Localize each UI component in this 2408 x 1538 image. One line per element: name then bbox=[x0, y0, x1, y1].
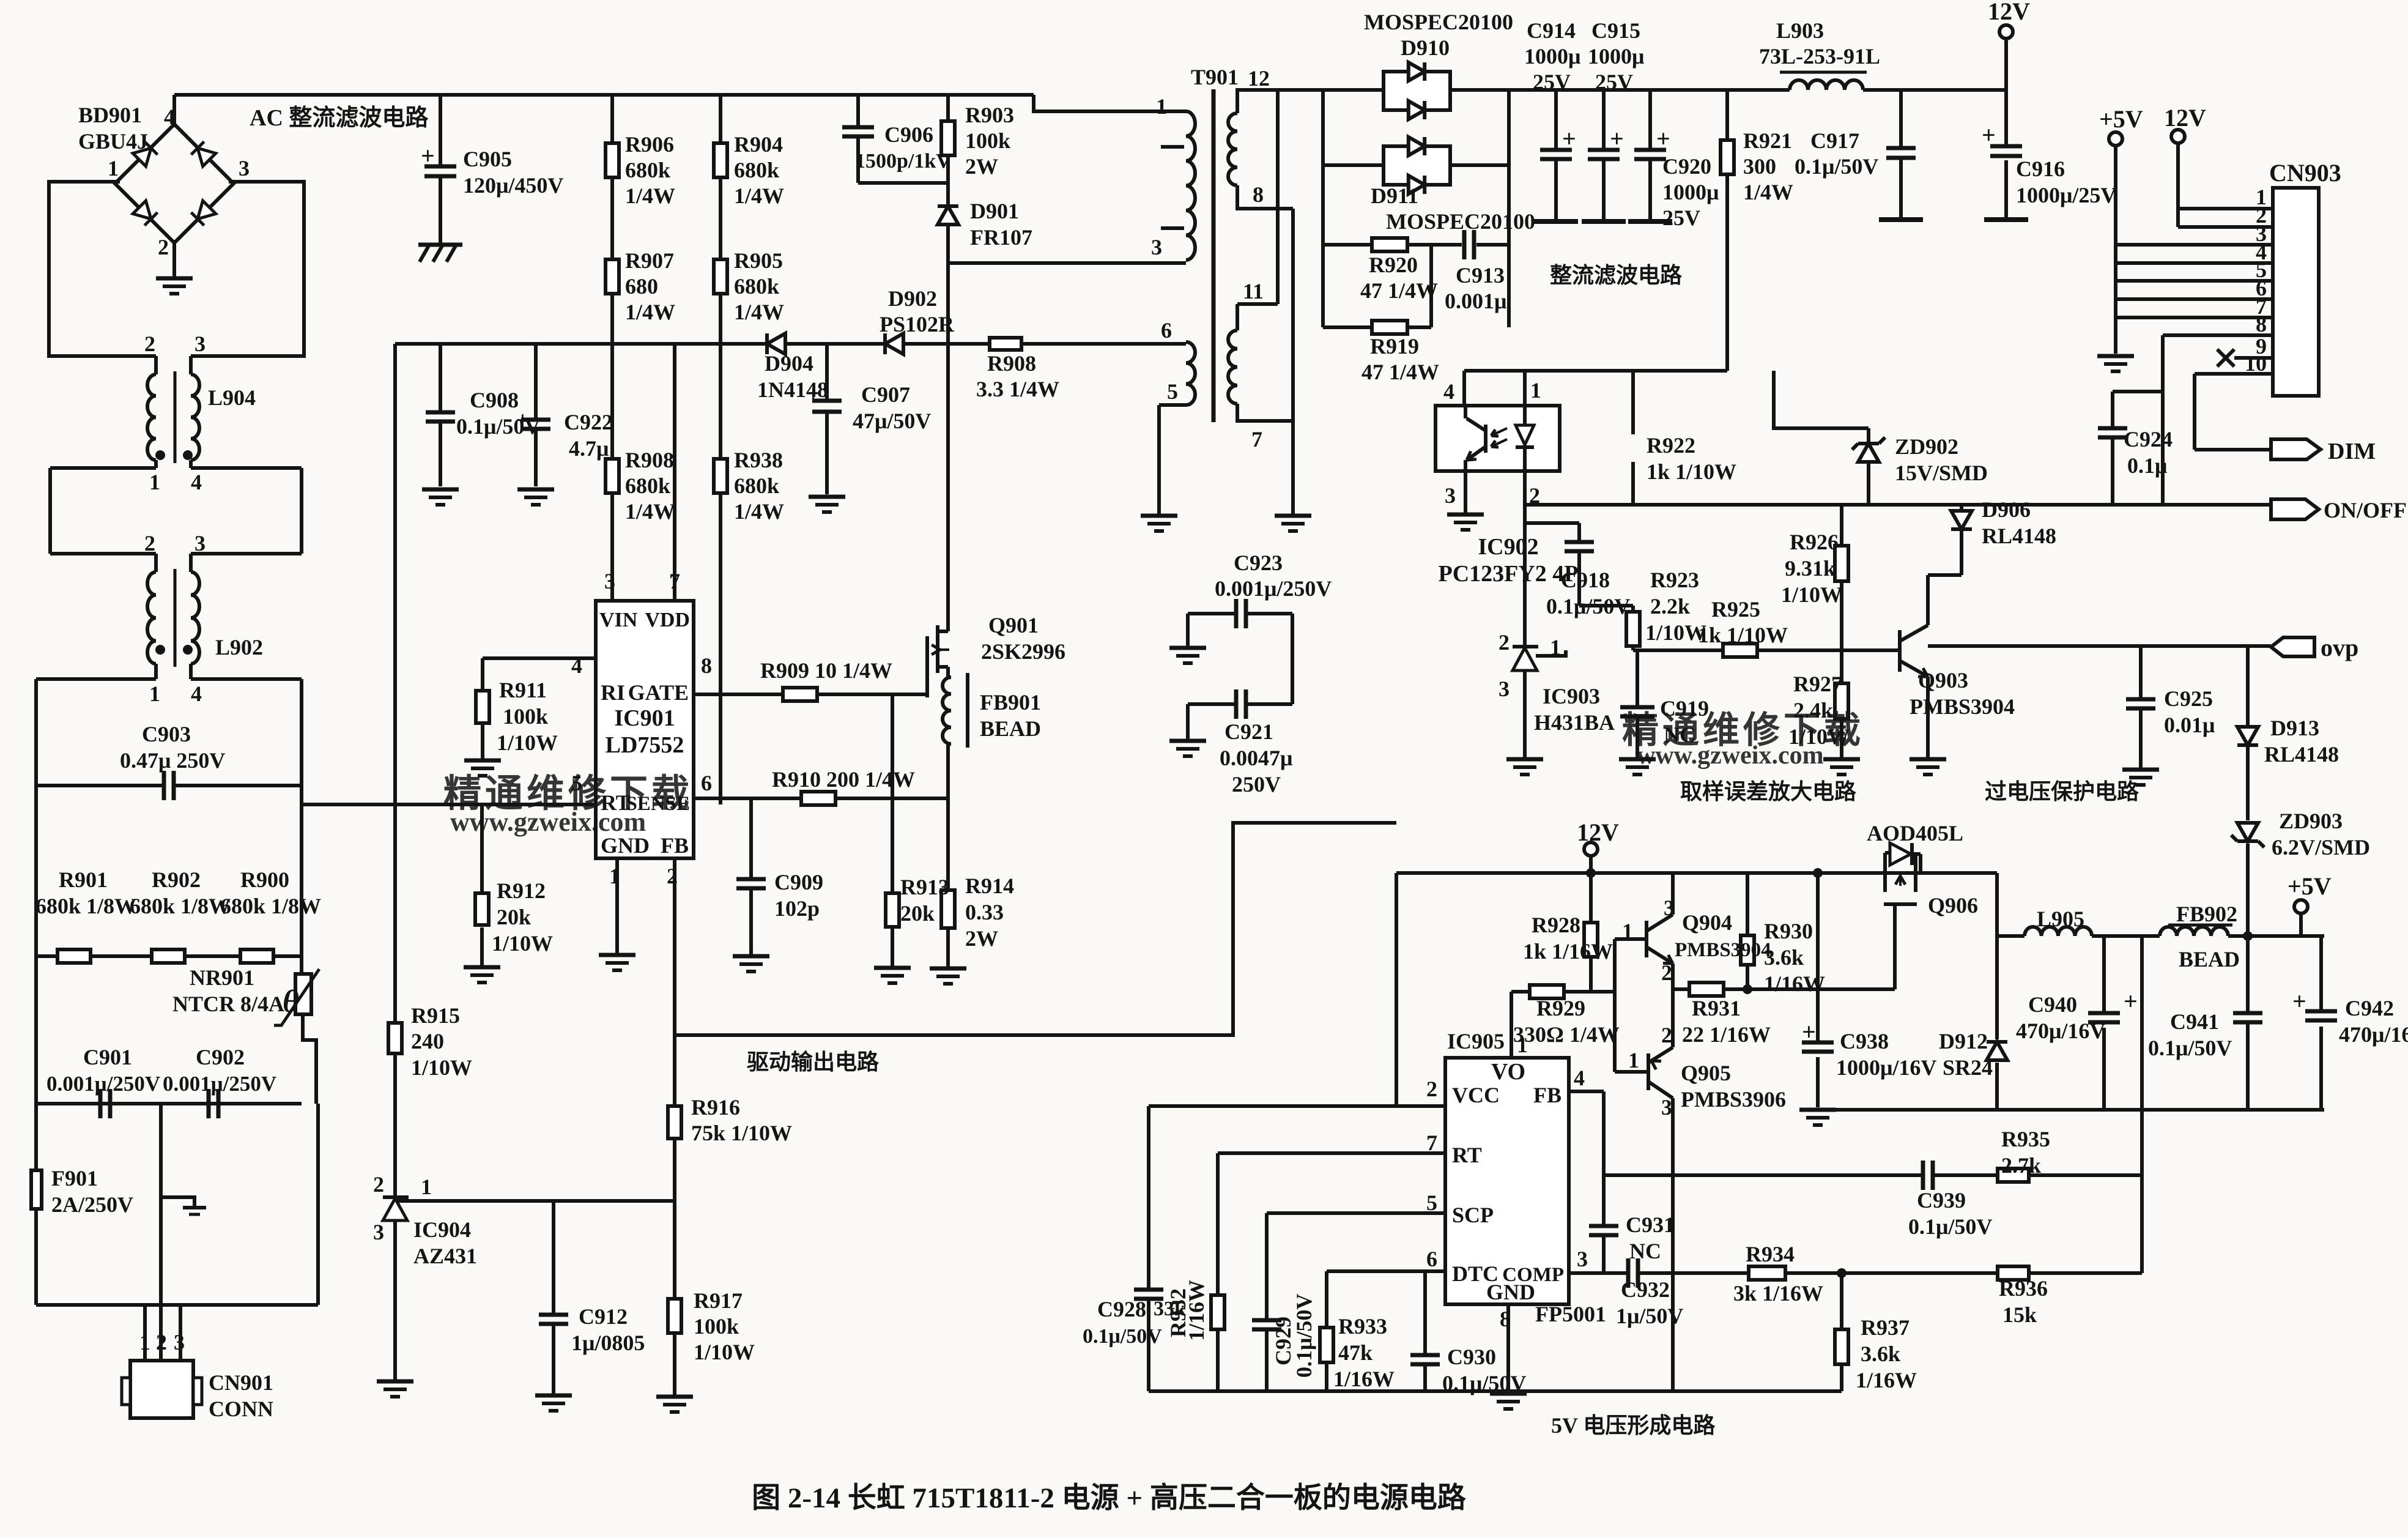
svg-text:100k: 100k bbox=[965, 128, 1010, 153]
svg-text:3k 1/16W: 3k 1/16W bbox=[1733, 1281, 1823, 1306]
svg-text:0.1μ: 0.1μ bbox=[2127, 453, 2167, 478]
svg-text:2: 2 bbox=[373, 1172, 384, 1197]
svg-text:DIM: DIM bbox=[2328, 439, 2376, 464]
svg-text:GBU4J: GBU4J bbox=[78, 129, 148, 154]
svg-text:C914: C914 bbox=[1527, 18, 1576, 43]
svg-text:5V 电压形成电路: 5V 电压形成电路 bbox=[1551, 1413, 1716, 1438]
svg-text:0.001μ/250V: 0.001μ/250V bbox=[1215, 576, 1332, 601]
svg-text:D901: D901 bbox=[970, 199, 1019, 223]
svg-text:R923: R923 bbox=[1650, 568, 1699, 592]
svg-text:1/16W: 1/16W bbox=[1764, 971, 1825, 996]
svg-text:1000μ: 1000μ bbox=[1524, 44, 1580, 69]
svg-text:C938: C938 bbox=[1840, 1029, 1889, 1053]
svg-text:D911: D911 bbox=[1371, 184, 1418, 208]
svg-text:4: 4 bbox=[1443, 379, 1454, 404]
svg-text:MOSPEC20100: MOSPEC20100 bbox=[1364, 10, 1513, 34]
svg-text:IC903: IC903 bbox=[1543, 684, 1600, 708]
svg-text:R908: R908 bbox=[987, 351, 1036, 376]
svg-text:VO: VO bbox=[1491, 1059, 1525, 1085]
svg-text:C906: C906 bbox=[884, 122, 933, 147]
svg-text:FB902: FB902 bbox=[2176, 902, 2237, 926]
svg-text:2A/250V: 2A/250V bbox=[51, 1192, 133, 1217]
svg-text:C942: C942 bbox=[2345, 996, 2394, 1020]
svg-text:2: 2 bbox=[156, 1330, 167, 1354]
svg-text:8: 8 bbox=[1253, 182, 1264, 207]
svg-text:2.7k: 2.7k bbox=[2001, 1153, 2041, 1178]
svg-text:0.1μ/50V: 0.1μ/50V bbox=[1442, 1371, 1526, 1395]
svg-text:C913: C913 bbox=[1456, 263, 1505, 288]
svg-text:7: 7 bbox=[1426, 1131, 1437, 1155]
svg-text:+: + bbox=[1982, 121, 1996, 149]
svg-text:SR24: SR24 bbox=[1943, 1055, 1993, 1080]
svg-text:+5V: +5V bbox=[2288, 872, 2332, 900]
svg-text:1: 1 bbox=[1517, 1033, 1528, 1057]
svg-text:PS102R: PS102R bbox=[880, 312, 955, 336]
svg-text:47k: 47k bbox=[1338, 1340, 1373, 1365]
svg-text:4: 4 bbox=[191, 470, 202, 494]
svg-text:R935: R935 bbox=[2001, 1127, 2050, 1151]
svg-text:C909: C909 bbox=[774, 870, 823, 894]
svg-text:R906: R906 bbox=[625, 132, 674, 157]
svg-text:2: 2 bbox=[144, 332, 155, 356]
svg-text:1/4W: 1/4W bbox=[734, 184, 784, 208]
svg-text:0.1μ/50V: 0.1μ/50V bbox=[1546, 594, 1630, 619]
svg-text:15V/SMD: 15V/SMD bbox=[1895, 461, 1988, 485]
svg-text:C932: C932 bbox=[1621, 1277, 1670, 1302]
svg-text:1k 1/10W: 1k 1/10W bbox=[1698, 623, 1788, 647]
svg-text:0.1μ/50V: 0.1μ/50V bbox=[1292, 1294, 1316, 1378]
svg-text:NR901: NR901 bbox=[190, 965, 254, 990]
svg-text:R929: R929 bbox=[1536, 996, 1585, 1020]
svg-text:www.gzweix.com: www.gzweix.com bbox=[1637, 741, 1824, 770]
svg-text:R916: R916 bbox=[691, 1095, 740, 1120]
svg-text:C908: C908 bbox=[470, 388, 519, 412]
svg-text:1: 1 bbox=[108, 156, 119, 180]
svg-text:120μ/450V: 120μ/450V bbox=[463, 173, 563, 198]
svg-text:ZD902: ZD902 bbox=[1895, 434, 1958, 459]
svg-text:R901: R901 bbox=[59, 867, 108, 892]
svg-text:RI: RI bbox=[601, 680, 625, 705]
svg-text:3: 3 bbox=[1661, 1095, 1672, 1120]
svg-text:0.01μ: 0.01μ bbox=[2164, 713, 2215, 737]
svg-text:8: 8 bbox=[1500, 1307, 1511, 1331]
svg-text:D910: D910 bbox=[1401, 35, 1450, 60]
svg-text:R921: R921 bbox=[1743, 128, 1792, 153]
svg-text:1/4W: 1/4W bbox=[734, 499, 784, 524]
svg-text:C928: C928 bbox=[1097, 1297, 1146, 1321]
svg-text:73L-253-91L: 73L-253-91L bbox=[1759, 44, 1880, 69]
svg-text:IC902: IC902 bbox=[1478, 534, 1538, 560]
svg-text:R903: R903 bbox=[965, 103, 1014, 127]
svg-text:R914: R914 bbox=[965, 874, 1014, 898]
svg-text:C924: C924 bbox=[2124, 427, 2173, 451]
svg-text:ZD903: ZD903 bbox=[2279, 809, 2343, 833]
svg-text:C918: C918 bbox=[1561, 568, 1610, 592]
svg-text:R920: R920 bbox=[1369, 253, 1418, 277]
svg-text:0.1μ/50V: 0.1μ/50V bbox=[1908, 1214, 1992, 1239]
svg-text:R934: R934 bbox=[1746, 1242, 1795, 1266]
svg-text:C902: C902 bbox=[196, 1045, 245, 1069]
svg-text:R926: R926 bbox=[1790, 530, 1839, 554]
svg-text:12V: 12V bbox=[1988, 0, 2030, 25]
svg-text:GND: GND bbox=[601, 833, 650, 858]
svg-text:L903: L903 bbox=[1776, 18, 1824, 43]
svg-text:3: 3 bbox=[1664, 896, 1675, 920]
svg-text:C939: C939 bbox=[1917, 1188, 1966, 1213]
svg-text:1/16W: 1/16W bbox=[1184, 1280, 1209, 1341]
svg-text:R905: R905 bbox=[734, 248, 783, 273]
svg-text:T901: T901 bbox=[1191, 65, 1239, 89]
svg-text:C940: C940 bbox=[2028, 992, 2077, 1017]
svg-text:AOD405L: AOD405L bbox=[1867, 821, 1963, 845]
svg-text:LD7552: LD7552 bbox=[606, 732, 684, 758]
svg-text:4: 4 bbox=[1574, 1066, 1585, 1090]
svg-text:H431BA: H431BA bbox=[1534, 710, 1615, 735]
svg-text:R925: R925 bbox=[1711, 597, 1760, 622]
svg-text:C901: C901 bbox=[83, 1045, 132, 1069]
svg-text:2: 2 bbox=[144, 531, 155, 555]
svg-text:100k: 100k bbox=[503, 704, 548, 729]
svg-text:C922: C922 bbox=[564, 410, 613, 434]
svg-text:PC123FY2 4P: PC123FY2 4P bbox=[1438, 561, 1578, 587]
svg-text:IC901: IC901 bbox=[614, 705, 675, 731]
svg-text:22 1/16W: 22 1/16W bbox=[1682, 1022, 1771, 1047]
svg-text:1000μ/16V: 1000μ/16V bbox=[1836, 1055, 1936, 1080]
svg-text:680: 680 bbox=[625, 274, 658, 299]
svg-text:1/16W: 1/16W bbox=[1333, 1367, 1395, 1391]
svg-text:C907: C907 bbox=[861, 382, 910, 407]
svg-text:3.6k: 3.6k bbox=[1861, 1342, 1900, 1366]
svg-text:R922: R922 bbox=[1647, 433, 1695, 458]
svg-text:1/10W: 1/10W bbox=[1781, 582, 1842, 607]
svg-text:12V: 12V bbox=[1577, 819, 1619, 846]
svg-text:R927: R927 bbox=[1793, 672, 1842, 696]
svg-text:R910 200 1/4W: R910 200 1/4W bbox=[772, 767, 915, 792]
svg-text:25V: 25V bbox=[1595, 70, 1633, 94]
svg-text:R936: R936 bbox=[1999, 1276, 2048, 1301]
svg-text:3: 3 bbox=[1151, 235, 1162, 259]
svg-text:C931: C931 bbox=[1626, 1213, 1675, 1237]
svg-text:4: 4 bbox=[191, 682, 202, 706]
svg-text:1/4W: 1/4W bbox=[625, 184, 675, 208]
svg-text:D906: D906 bbox=[1982, 497, 2031, 522]
svg-text:6: 6 bbox=[1161, 318, 1172, 343]
svg-text:1: 1 bbox=[609, 864, 620, 888]
svg-text:3: 3 bbox=[194, 332, 206, 356]
svg-text:Q903: Q903 bbox=[1918, 668, 1968, 693]
svg-text:1/10W: 1/10W bbox=[1645, 620, 1706, 645]
svg-text:FB: FB bbox=[1533, 1083, 1561, 1107]
svg-text:D913: D913 bbox=[2270, 716, 2319, 740]
svg-text:2W: 2W bbox=[965, 154, 998, 179]
svg-text:C903: C903 bbox=[142, 722, 191, 746]
svg-text:NTCR 8/4A: NTCR 8/4A bbox=[172, 992, 284, 1016]
svg-text:+5V: +5V bbox=[2099, 105, 2143, 133]
svg-text:0.001μ/250V: 0.001μ/250V bbox=[163, 1072, 276, 1096]
svg-text:6: 6 bbox=[1426, 1247, 1437, 1271]
svg-text:ON/OFF: ON/OFF bbox=[2324, 498, 2407, 522]
svg-text:240: 240 bbox=[411, 1029, 444, 1053]
svg-text:R937: R937 bbox=[1861, 1315, 1910, 1340]
svg-text:1k 1/16W: 1k 1/16W bbox=[1523, 939, 1613, 964]
svg-text:25V: 25V bbox=[1662, 206, 1700, 230]
svg-text:470μ/16V: 470μ/16V bbox=[2339, 1022, 2408, 1047]
svg-text:NC: NC bbox=[1629, 1239, 1661, 1263]
svg-text:2: 2 bbox=[1529, 483, 1540, 508]
svg-text:C917: C917 bbox=[1810, 128, 1859, 153]
svg-text:12V: 12V bbox=[2164, 104, 2206, 132]
svg-text:1: 1 bbox=[1156, 94, 1167, 119]
svg-text:1/10W: 1/10W bbox=[694, 1340, 755, 1364]
svg-text:+: + bbox=[1656, 125, 1670, 152]
svg-text:1: 1 bbox=[139, 1330, 150, 1354]
svg-text:680k 1/8W: 680k 1/8W bbox=[220, 894, 321, 918]
svg-text:C915: C915 bbox=[1591, 18, 1640, 43]
svg-text:SCP: SCP bbox=[1452, 1203, 1494, 1227]
svg-text:R908: R908 bbox=[625, 448, 674, 472]
svg-text:4: 4 bbox=[164, 105, 175, 129]
svg-text:GND: GND bbox=[1486, 1280, 1535, 1304]
svg-text:0.33: 0.33 bbox=[965, 900, 1004, 924]
svg-text:C921: C921 bbox=[1224, 719, 1273, 744]
svg-text:RL4148: RL4148 bbox=[2264, 742, 2339, 767]
svg-text:680k: 680k bbox=[734, 158, 779, 182]
svg-text:47 1/4W: 47 1/4W bbox=[1360, 278, 1438, 303]
svg-text:+: + bbox=[1610, 125, 1624, 152]
svg-text:0.0047μ: 0.0047μ bbox=[1220, 746, 1292, 770]
svg-text:整流滤波电路: 整流滤波电路 bbox=[1550, 263, 1683, 288]
svg-text:L902: L902 bbox=[215, 635, 263, 659]
svg-text:+: + bbox=[1562, 125, 1576, 152]
svg-text:2W: 2W bbox=[965, 926, 998, 951]
svg-text:20k: 20k bbox=[900, 901, 935, 926]
svg-text:47 1/4W: 47 1/4W bbox=[1361, 360, 1439, 384]
svg-text:4: 4 bbox=[571, 653, 582, 678]
svg-text:R919: R919 bbox=[1370, 334, 1419, 358]
svg-text:3.3 1/4W: 3.3 1/4W bbox=[976, 377, 1059, 401]
svg-text:15k: 15k bbox=[2002, 1302, 2037, 1327]
svg-text:R931: R931 bbox=[1692, 996, 1741, 1020]
svg-text:2: 2 bbox=[667, 864, 678, 888]
svg-text:+: + bbox=[516, 406, 530, 434]
svg-text:25V: 25V bbox=[1533, 70, 1571, 94]
svg-text:1500p/1kV: 1500p/1kV bbox=[855, 150, 951, 173]
svg-text:8: 8 bbox=[701, 653, 712, 678]
svg-text:C920: C920 bbox=[1662, 154, 1711, 179]
svg-text:GATE: GATE bbox=[628, 680, 689, 705]
svg-text:Q905: Q905 bbox=[1681, 1061, 1731, 1085]
svg-text:C930: C930 bbox=[1447, 1345, 1496, 1369]
svg-text:C925: C925 bbox=[2164, 686, 2213, 711]
svg-text:1: 1 bbox=[1622, 919, 1633, 943]
svg-text:1/4W: 1/4W bbox=[734, 300, 784, 324]
svg-text:20k: 20k bbox=[497, 905, 531, 929]
svg-text:过电压保护电路: 过电压保护电路 bbox=[1985, 779, 2139, 804]
svg-text:D902: D902 bbox=[888, 286, 937, 311]
svg-text:11: 11 bbox=[1243, 279, 1264, 303]
svg-text:D904: D904 bbox=[765, 351, 813, 376]
svg-text:9.31k: 9.31k bbox=[1785, 556, 1836, 581]
svg-text:R904: R904 bbox=[734, 132, 783, 157]
svg-text:R928: R928 bbox=[1532, 913, 1580, 937]
svg-text:1/16W: 1/16W bbox=[1856, 1368, 1917, 1392]
svg-text:3: 3 bbox=[194, 531, 206, 555]
svg-text:VCC: VCC bbox=[1452, 1083, 1500, 1107]
svg-text:C923: C923 bbox=[1234, 551, 1283, 575]
svg-text:Q904: Q904 bbox=[1682, 910, 1732, 935]
svg-text:+: + bbox=[2124, 987, 2138, 1015]
svg-text:+: + bbox=[1802, 1018, 1816, 1046]
svg-text:CN903: CN903 bbox=[2269, 159, 2341, 187]
svg-text:0.1μ/50V: 0.1μ/50V bbox=[2148, 1036, 2232, 1060]
svg-text:47μ/50V: 47μ/50V bbox=[853, 409, 931, 433]
svg-text:ovp: ovp bbox=[2321, 634, 2358, 661]
svg-text:驱动输出电路: 驱动输出电路 bbox=[747, 1050, 880, 1074]
svg-text:1: 1 bbox=[1628, 1048, 1639, 1072]
svg-text:3: 3 bbox=[1445, 483, 1456, 508]
svg-text:8: 8 bbox=[2256, 312, 2267, 336]
svg-text:3: 3 bbox=[239, 156, 250, 180]
svg-text:12: 12 bbox=[1248, 66, 1270, 91]
svg-text:FR107: FR107 bbox=[970, 225, 1032, 250]
svg-text:CONN: CONN bbox=[209, 1397, 273, 1421]
svg-text:102p: 102p bbox=[774, 896, 820, 921]
svg-text:2: 2 bbox=[1426, 1077, 1437, 1101]
svg-text:2: 2 bbox=[1661, 960, 1672, 985]
svg-text:680k: 680k bbox=[734, 274, 779, 299]
svg-text:6: 6 bbox=[701, 771, 712, 795]
svg-text:2: 2 bbox=[158, 235, 169, 259]
svg-text:D912: D912 bbox=[1939, 1029, 1988, 1053]
svg-text:680k 1/8W: 680k 1/8W bbox=[35, 894, 136, 918]
svg-text:R913: R913 bbox=[900, 875, 949, 899]
svg-text:1000μ/25V: 1000μ/25V bbox=[2016, 183, 2116, 207]
svg-text:R938: R938 bbox=[734, 448, 783, 472]
svg-text:7: 7 bbox=[669, 569, 680, 593]
svg-text:3: 3 bbox=[1577, 1247, 1588, 1271]
svg-text:1/4W: 1/4W bbox=[625, 300, 675, 324]
svg-text:CN901: CN901 bbox=[209, 1370, 273, 1395]
svg-text:680k: 680k bbox=[625, 158, 670, 182]
svg-text:FB: FB bbox=[661, 833, 689, 858]
svg-text:C905: C905 bbox=[463, 147, 512, 171]
svg-text:L904: L904 bbox=[208, 385, 256, 410]
svg-text:7: 7 bbox=[1251, 427, 1262, 451]
svg-text:AZ431: AZ431 bbox=[413, 1244, 477, 1268]
svg-text:1000μ: 1000μ bbox=[1588, 44, 1644, 69]
svg-text:图 2-14 长虹 715T1811-2 电源 + 高压: 图 2-14 长虹 715T1811-2 电源 + 高压二合一板的电源电路 bbox=[752, 1482, 1467, 1514]
svg-text:R917: R917 bbox=[694, 1288, 743, 1313]
svg-text:1: 1 bbox=[1530, 378, 1541, 403]
svg-text:VDD: VDD bbox=[645, 609, 690, 631]
svg-text:PMBS3906: PMBS3906 bbox=[1681, 1087, 1786, 1112]
svg-text:R902: R902 bbox=[152, 867, 201, 892]
svg-text:680k: 680k bbox=[625, 474, 670, 498]
svg-text:300: 300 bbox=[1743, 154, 1776, 179]
svg-text:6.2V/SMD: 6.2V/SMD bbox=[2272, 835, 2370, 860]
svg-text:PMBS3904: PMBS3904 bbox=[1910, 694, 2015, 719]
svg-text:330Ω 1/4W: 330Ω 1/4W bbox=[1513, 1022, 1620, 1047]
svg-text:1: 1 bbox=[149, 470, 160, 494]
svg-text:0.1μ/50V: 0.1μ/50V bbox=[1083, 1325, 1162, 1348]
svg-text:F901: F901 bbox=[51, 1166, 98, 1191]
svg-text:R900: R900 bbox=[240, 867, 289, 892]
svg-text:4.7μ: 4.7μ bbox=[569, 436, 609, 461]
svg-text:FB901: FB901 bbox=[980, 690, 1041, 715]
svg-text:BD901: BD901 bbox=[78, 103, 142, 127]
svg-text:R911: R911 bbox=[499, 678, 547, 702]
svg-text:1/10W: 1/10W bbox=[492, 931, 553, 956]
svg-text:1μ/50V: 1μ/50V bbox=[1616, 1304, 1683, 1328]
svg-text:R915: R915 bbox=[411, 1003, 460, 1028]
svg-text:5: 5 bbox=[1426, 1191, 1437, 1215]
svg-text:C916: C916 bbox=[2016, 157, 2065, 181]
svg-text:θ: θ bbox=[283, 984, 299, 1019]
svg-text:1/10W: 1/10W bbox=[497, 730, 558, 755]
svg-text:1/10W: 1/10W bbox=[411, 1055, 472, 1080]
svg-text:VIN: VIN bbox=[599, 609, 638, 631]
svg-text:1/4W: 1/4W bbox=[1743, 180, 1793, 204]
svg-text:3.6k: 3.6k bbox=[1764, 945, 1804, 970]
svg-text:0.1μ/50V: 0.1μ/50V bbox=[1795, 154, 1878, 179]
svg-text:3: 3 bbox=[373, 1220, 384, 1244]
svg-text:5: 5 bbox=[1167, 379, 1178, 404]
svg-text:0.001μ/250V: 0.001μ/250V bbox=[46, 1072, 160, 1096]
svg-text:2.2k: 2.2k bbox=[1650, 594, 1690, 619]
svg-text:680k 1/8W: 680k 1/8W bbox=[130, 894, 231, 918]
svg-text:3: 3 bbox=[604, 569, 615, 593]
svg-text:1000μ: 1000μ bbox=[1662, 180, 1719, 204]
svg-text:R930: R930 bbox=[1764, 919, 1813, 943]
svg-text:100k: 100k bbox=[694, 1314, 739, 1339]
svg-text:BEAD: BEAD bbox=[980, 716, 1041, 741]
svg-text:0.001μ: 0.001μ bbox=[1445, 289, 1506, 313]
svg-text:470μ/16V: 470μ/16V bbox=[2016, 1019, 2105, 1043]
svg-text:R909 10 1/4W: R909 10 1/4W bbox=[760, 658, 892, 683]
svg-text:1k 1/10W: 1k 1/10W bbox=[1647, 459, 1736, 484]
svg-text:1/4W: 1/4W bbox=[625, 499, 675, 524]
svg-text:Q906: Q906 bbox=[1928, 893, 1978, 918]
svg-text:0.47μ 250V: 0.47μ 250V bbox=[120, 748, 225, 773]
svg-text:250V: 250V bbox=[1232, 772, 1281, 797]
svg-text:+: + bbox=[421, 142, 435, 169]
svg-text:2SK2996: 2SK2996 bbox=[981, 639, 1065, 664]
svg-text:MOSPEC20100: MOSPEC20100 bbox=[1386, 209, 1535, 234]
svg-text:IC904: IC904 bbox=[413, 1217, 471, 1242]
svg-text:FP5001: FP5001 bbox=[1535, 1302, 1606, 1326]
svg-text:Q901: Q901 bbox=[988, 613, 1039, 637]
svg-text:10: 10 bbox=[2245, 351, 2267, 376]
svg-text:2: 2 bbox=[1661, 1023, 1672, 1047]
svg-text:C941: C941 bbox=[2170, 1009, 2219, 1034]
svg-text:L905: L905 bbox=[2037, 907, 2084, 931]
svg-text:RL4148: RL4148 bbox=[1982, 524, 2056, 548]
svg-text:www.gzweix.com: www.gzweix.com bbox=[450, 807, 646, 837]
svg-text:+: + bbox=[806, 379, 820, 407]
svg-text:RT: RT bbox=[1452, 1143, 1482, 1167]
svg-text:R933: R933 bbox=[1338, 1314, 1387, 1339]
svg-text:2: 2 bbox=[1499, 630, 1510, 655]
svg-text:C912: C912 bbox=[579, 1304, 628, 1329]
svg-text:R912: R912 bbox=[497, 879, 546, 903]
svg-text:1: 1 bbox=[421, 1175, 432, 1199]
svg-text:BEAD: BEAD bbox=[2179, 947, 2240, 971]
svg-text:PMBS3904: PMBS3904 bbox=[1675, 939, 1771, 961]
svg-text:3: 3 bbox=[1499, 677, 1510, 701]
svg-text:+: + bbox=[2292, 987, 2306, 1015]
svg-text:1: 1 bbox=[149, 682, 160, 706]
svg-text:R907: R907 bbox=[625, 248, 674, 273]
